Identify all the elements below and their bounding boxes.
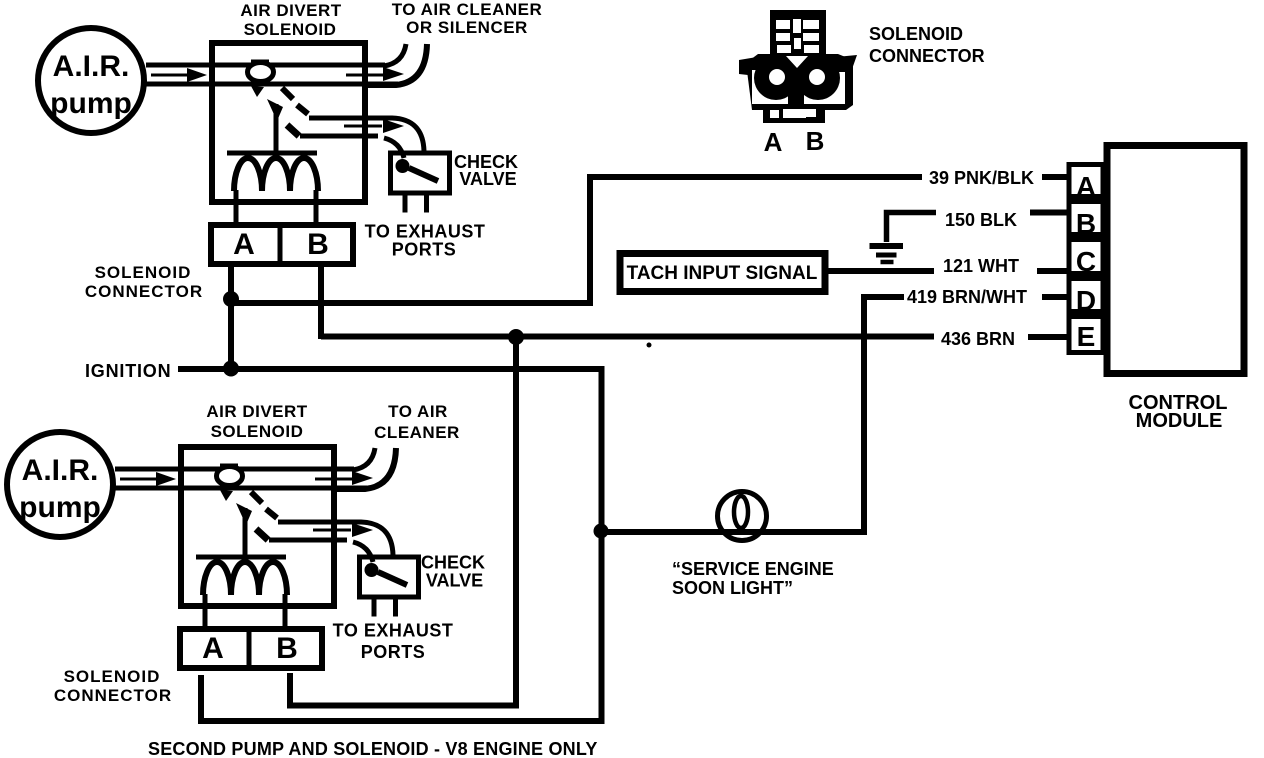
svg-text:VALVE: VALVE	[459, 169, 516, 189]
outlet elbow outer	[337, 448, 396, 489]
solenoid box	[212, 43, 365, 202]
svg-text:TO EXHAUST: TO EXHAUST	[333, 621, 454, 641]
bulb filament	[734, 496, 748, 528]
coil lead right	[314, 190, 319, 223]
check valve flap	[409, 168, 438, 181]
ignition wire run	[178, 369, 602, 721]
valve ball	[248, 63, 274, 82]
svg-text:B: B	[806, 126, 825, 156]
svg-text:SECOND PUMP AND SOLENOID - V8: SECOND PUMP AND SOLENOID - V8 ENGINE ONL…	[148, 739, 598, 758]
svg-text:121 WHT: 121 WHT	[943, 256, 1019, 276]
wire solenoid1 B terminal down	[318, 267, 324, 339]
svg-text:TO AIR CLEANER: TO AIR CLEANER	[392, 0, 543, 19]
check valve leg 2	[393, 598, 398, 617]
svg-text:CHECK: CHECK	[421, 553, 485, 573]
check valve leg 2	[424, 194, 429, 213]
ground symbol	[870, 243, 904, 249]
pin box E	[1069, 317, 1103, 353]
connector body	[746, 54, 853, 110]
stub to pin E	[1028, 334, 1070, 340]
wire ignition branch to bulb and 419	[601, 297, 904, 532]
svg-text:B: B	[307, 228, 329, 261]
svg-text:A: A	[233, 228, 255, 261]
svg-text:TO AIR: TO AIR	[388, 402, 448, 421]
flow arrow 2	[315, 478, 353, 481]
junction dot ignition	[223, 361, 239, 377]
wire solenoid2 B terminal to 436 junction	[290, 338, 516, 706]
flow arrow 1	[120, 478, 158, 481]
junction dot bulb branch	[594, 524, 609, 539]
pipe upper line	[146, 63, 385, 68]
check valve box	[391, 153, 450, 193]
stub to pin C	[1037, 268, 1070, 274]
control module box	[1107, 146, 1244, 374]
armature flag	[267, 99, 283, 121]
wire 39 PNK/BLK run	[231, 177, 922, 303]
bulb circle service engine soon	[718, 492, 767, 541]
check valve leg 1	[403, 194, 408, 213]
armature stem	[243, 508, 248, 555]
A.I.R. pump P1	[38, 28, 144, 133]
outlet elbow inner	[384, 44, 406, 66]
stub to pin D	[1042, 294, 1070, 300]
solenoid box	[181, 447, 334, 606]
connector ear left	[739, 57, 757, 76]
svg-text:PORTS: PORTS	[361, 642, 426, 662]
linkage dash 2	[266, 509, 277, 518]
A.I.R. pump P2	[7, 432, 113, 537]
flow arrow 3	[344, 125, 382, 128]
svg-text:E: E	[1077, 321, 1096, 352]
svg-text:B: B	[276, 632, 298, 665]
linkage dash 2	[297, 105, 308, 114]
check valve disc	[396, 159, 410, 173]
svg-text:CONNECTOR: CONNECTOR	[869, 46, 985, 66]
svg-text:“SERVICE ENGINE: “SERVICE ENGINE	[672, 559, 834, 579]
pipe 2 inner curve	[384, 138, 404, 158]
stub to pin A	[1042, 174, 1070, 180]
svg-text:150 BLK: 150 BLK	[945, 210, 1017, 230]
junction dot A branch	[223, 291, 239, 307]
svg-text:A.I.R.: A.I.R.	[22, 454, 99, 487]
check valve flap	[378, 572, 407, 585]
pipe 2 inner curve	[353, 542, 373, 562]
svg-text:419 BRN/WHT: 419 BRN/WHT	[907, 287, 1027, 307]
connector eye B	[796, 56, 840, 100]
pipe upper line	[115, 467, 354, 472]
connector base	[763, 107, 825, 123]
coil lead right	[283, 594, 288, 627]
svg-text:AIR DIVERT: AIR DIVERT	[240, 1, 341, 20]
linkage dash 3	[256, 529, 268, 540]
flow arrow 2	[346, 74, 384, 77]
coil	[203, 562, 287, 595]
wire 121 WHT from tach box	[828, 268, 934, 274]
flow arrow 3	[313, 529, 351, 532]
svg-text:39 PNK/BLK: 39 PNK/BLK	[929, 168, 1034, 188]
coil lead left	[234, 190, 239, 223]
pipe lower line	[115, 486, 367, 491]
svg-text:A: A	[764, 127, 783, 157]
valve drop triangle	[220, 490, 233, 501]
coil	[234, 158, 318, 191]
svg-text:pump: pump	[50, 87, 132, 120]
connector ear right	[836, 55, 857, 72]
svg-text:B: B	[1076, 208, 1096, 239]
connector box A/B	[180, 629, 322, 668]
svg-text:C: C	[1076, 246, 1096, 277]
svg-text:pump: pump	[19, 491, 101, 524]
pin box B	[1069, 202, 1103, 235]
svg-text:CONNECTOR: CONNECTOR	[85, 282, 203, 301]
svg-text:IGNITION: IGNITION	[85, 361, 171, 381]
svg-text:A: A	[202, 632, 224, 665]
pipe 2 lower	[300, 134, 378, 139]
armature bar	[227, 151, 317, 156]
pipe 2 upper with elbow to check valve	[278, 522, 393, 555]
armature flag	[236, 503, 252, 525]
wire 436 BRN run	[321, 334, 934, 340]
svg-text:SOLENOID: SOLENOID	[95, 263, 192, 282]
outlet elbow inner	[353, 448, 375, 470]
armature bar	[196, 555, 286, 560]
linkage dash 1	[282, 88, 293, 99]
svg-text:OR SILENCER: OR SILENCER	[406, 18, 528, 37]
check valve leg 1	[372, 598, 377, 617]
valve ball	[217, 467, 243, 486]
pin box D	[1069, 279, 1103, 312]
ground branch wire	[887, 213, 937, 243]
connector box A/B	[211, 225, 353, 264]
speck	[647, 343, 652, 348]
svg-text:MODULE: MODULE	[1136, 410, 1223, 432]
body cutouts	[786, 56, 808, 68]
svg-text:D: D	[1076, 285, 1096, 316]
outlet elbow outer	[368, 44, 427, 85]
check valve disc	[365, 563, 379, 577]
connector top block	[770, 10, 826, 55]
svg-text:TACH INPUT SIGNAL: TACH INPUT SIGNAL	[627, 263, 818, 284]
wire solenoid1 A terminal down to ignition node	[228, 267, 234, 369]
svg-text:SOLENOID: SOLENOID	[244, 20, 337, 39]
svg-text:VALVE: VALVE	[426, 571, 483, 591]
linkage dash 1	[251, 492, 262, 503]
junction dot 436/B2	[508, 329, 524, 345]
svg-text:SOLENOID: SOLENOID	[211, 422, 304, 441]
connector eye A	[754, 56, 798, 100]
svg-text:TO EXHAUST: TO EXHAUST	[365, 222, 486, 242]
svg-text:CONNECTOR: CONNECTOR	[54, 686, 172, 705]
svg-text:A.I.R.: A.I.R.	[53, 50, 130, 83]
linkage dash 3	[287, 125, 299, 136]
pin box C	[1069, 240, 1103, 274]
svg-text:436 BRN: 436 BRN	[941, 329, 1015, 349]
pipe 2 lower	[269, 538, 347, 543]
svg-text:AIR DIVERT: AIR DIVERT	[206, 402, 307, 421]
svg-text:SOLENOID: SOLENOID	[869, 24, 963, 44]
svg-text:PORTS: PORTS	[392, 240, 457, 260]
coil lead left	[203, 594, 208, 627]
svg-text:SOLENOID: SOLENOID	[64, 667, 161, 686]
stub to pin B	[1030, 210, 1070, 216]
pin box A	[1069, 165, 1103, 197]
svg-text:SOON LIGHT”: SOON LIGHT”	[672, 578, 793, 598]
pipe 2 upper with elbow to check valve	[309, 118, 424, 151]
svg-text:CLEANER: CLEANER	[374, 423, 460, 442]
valve drop triangle	[251, 86, 264, 97]
pipe lower line	[146, 82, 398, 87]
svg-text:A: A	[1076, 171, 1096, 202]
check valve box	[360, 557, 419, 597]
flow arrow 1	[151, 74, 189, 77]
tach input signal box	[620, 254, 825, 292]
armature stem	[274, 104, 279, 151]
